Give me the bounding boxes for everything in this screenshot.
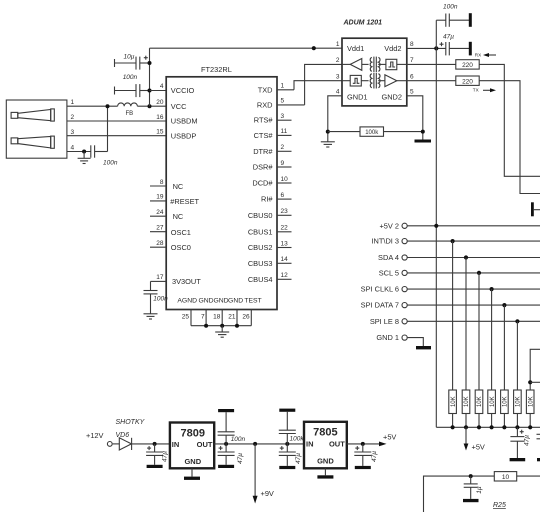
node INT\DI tap [451,239,455,243]
node gnd bus 21 [235,324,239,328]
pin 5 RXD [257,98,305,110]
wire diode to 7809 IN [132,443,170,445]
svg-text:8: 8 [160,179,164,186]
node 1u cap tap [469,474,473,478]
pin 15 USBDP label [156,129,196,141]
svg-text:13: 13 [281,240,289,247]
capacitor 100n (VCCIO) [115,74,150,97]
svg-text:47µ: 47µ [443,34,454,41]
pin 12 CBUS4 [248,272,292,284]
svg-text:VD6: VD6 [116,432,130,439]
svg-text:SCL 5: SCL 5 [379,268,399,277]
svg-text:10K: 10K [464,396,470,407]
node +9V branch [253,442,257,446]
svg-text:CBUS2: CBUS2 [248,243,273,252]
svg-text:3: 3 [281,113,285,120]
svg-text:10K: 10K [451,396,457,407]
ground below 7809 [184,468,200,480]
IC U1 FT232RL body [166,65,277,310]
svg-text:+5V 2: +5V 2 [379,221,399,230]
svg-text:TX: TX [473,88,479,93]
svg-text:15: 15 [156,129,164,136]
svg-text:47µ: 47µ [295,453,302,464]
wire column INT\DI pullup [452,241,454,390]
node VCC-row junction left [106,104,110,108]
wire USB1-VCC row [67,105,118,107]
svg-text:RI#: RI# [261,195,273,204]
svg-text:100n: 100n [103,160,118,167]
svg-text:4: 4 [160,83,164,90]
svg-text:INT\DI 3: INT\DI 3 [371,237,399,246]
connector pin GND 1 [376,333,423,346]
pin 23 CBUS0 [248,208,292,220]
node SPI DATA tap [502,303,506,307]
svg-text:6: 6 [281,192,285,199]
resistor R 10K (SCL) [475,390,483,427]
node bus column8 [528,425,532,429]
svg-text:USBDP: USBDP [171,131,197,140]
ADUM channel2 output buffer (right triangle) [378,75,407,87]
svg-text:100n: 100n [443,4,458,11]
wire FB to VCC pin [137,105,166,107]
svg-text:47µ: 47µ [162,451,169,462]
ADUM channel2 input cell (schmitt box left) [342,75,369,86]
svg-text:Vdd1: Vdd1 [347,44,364,53]
svg-text:100n: 100n [231,436,246,443]
svg-text:6: 6 [410,74,414,81]
resistor 220 (RX) [407,60,479,69]
wire top Vdd1 run [150,47,343,49]
wire RX to right edge [479,64,540,176]
ADUM pin 4 GND1 [336,89,368,102]
svg-text:19: 19 [156,194,164,201]
connector pin SDA 4 [378,253,540,262]
pin 1 TXD [258,83,294,95]
svg-text:GND 1: GND 1 [376,333,399,342]
svg-text:10K: 10K [516,396,522,407]
ADUM transformer T2 [370,73,380,89]
connector pin +5V 2 [379,221,540,230]
svg-text:21: 21 [228,313,236,320]
svg-text:26: 26 [242,313,250,320]
wire RXD to ADUM pin2 [305,64,342,105]
wire R25 row [424,476,495,512]
svg-text:3: 3 [71,129,75,136]
wire 7805 OUT [347,443,381,445]
svg-text:RXD: RXD [257,100,273,109]
ground bar 7809 input cap [147,465,163,468]
isolated ground bar GND2 [415,140,432,143]
svg-text:1: 1 [71,99,75,106]
svg-text:TXD: TXD [258,85,273,94]
ADUM channel1 input cell (schmitt box right) [378,59,407,69]
svg-text:SPI CLKL 6: SPI CLKL 6 [361,285,399,294]
pin 17 3V3OUT [151,274,202,286]
svg-text:AGND: AGND [177,298,197,305]
svg-text:+5V: +5V [472,443,485,452]
pin 6 RI# [261,192,292,204]
svg-text:VCCIO: VCCIO [171,86,195,95]
svg-text:100k: 100k [290,436,305,443]
node bus SDA [464,425,468,429]
svg-text:OUT: OUT [197,440,213,449]
capacitor 47u at 7805 output [354,444,378,466]
svg-text:FT232RL: FT232RL [201,65,232,74]
svg-text:27: 27 [156,225,164,232]
svg-text:14: 14 [281,256,289,263]
svg-text:GND: GND [184,457,201,466]
resistor R 10K (SPI DATA) [501,390,509,427]
pin 7 GND stub [201,310,206,326]
svg-text:10K: 10K [490,396,496,407]
node bus SPI CLKL [490,425,494,429]
+5V arrow below bus [464,427,485,451]
svg-text:GND2: GND2 [381,93,402,102]
wire vertical cap rail [149,48,151,106]
svg-text:NC: NC [173,212,184,221]
svg-text:220: 220 [462,78,473,85]
node SPI CLKL tap [490,287,494,291]
svg-text:47µ: 47µ [524,435,531,446]
ADUM channel1 output buffer (left triangle) [342,59,369,71]
capacitor 47u on bus [510,427,530,458]
regulator U3 7809 [170,423,214,469]
svg-text:47µ: 47µ [371,451,378,462]
resistor 220 (TX) [407,76,479,85]
pin 25 AGND stub [182,310,191,326]
svg-text:16: 16 [156,114,164,121]
wire column SPI DATA pullup [503,305,505,390]
svg-text:10K: 10K [528,396,534,407]
svg-text:#RESET: #RESET [170,197,199,206]
wire +5V2 rail vertical [435,20,437,427]
pin 18 GND stub [213,310,222,326]
connector pin SCL 5 [379,268,540,277]
svg-text:IN: IN [172,440,180,449]
svg-text:7805: 7805 [313,427,337,439]
svg-text:18: 18 [213,313,221,320]
svg-text:DSR#: DSR# [253,163,274,172]
svg-text:7809: 7809 [181,427,205,439]
connector pin SPI DATA 7 [361,301,540,310]
svg-text:VCC: VCC [171,102,187,111]
connector pin SPI LE 8 [370,317,540,326]
+5V arrow after 7805 [379,432,396,446]
wire USB2-USBDM [67,120,166,122]
svg-text:24: 24 [156,209,164,216]
svg-text:47µ: 47µ [237,453,244,464]
wire column SCL pullup [478,273,480,390]
svg-text:CBUS1: CBUS1 [248,227,273,236]
svg-text:2: 2 [71,114,75,121]
svg-text:GND: GND [317,457,334,466]
node bus SPI DATA [502,425,506,429]
capacitor C 100n on USB pin 4 [91,145,118,166]
svg-text:2: 2 [336,57,340,64]
wire USB4 stub [67,151,91,153]
svg-text:5: 5 [410,89,414,96]
ground bar at right edge (cut) [537,458,540,461]
ground bar below 1u [463,499,479,502]
capacitor 100n on 3V3OUT [144,281,169,313]
resistor 100k [328,127,423,136]
svg-text:3V3OUT: 3V3OUT [172,277,201,286]
ground bar above 7805 100n [279,409,295,412]
svg-text:10: 10 [281,176,289,183]
svg-text:7: 7 [410,57,414,64]
svg-text:OSC0: OSC0 [171,243,191,252]
wire TX to right edge [479,81,540,194]
svg-text:100n: 100n [123,74,138,81]
ground below chip [215,326,229,338]
ferrite bead FB [118,103,138,117]
wire ADUM pin8 to +5V2 rail [407,47,446,49]
svg-text:CTS#: CTS# [254,131,274,140]
capacitor 100n at 7809 output (to top bar) [218,412,246,444]
node GND2 junction [421,130,425,134]
resistor R 10K (SPI LE) [514,390,522,427]
svg-text:100k: 100k [365,130,379,136]
node GND1 junction [326,130,330,134]
wire ADUM pin4 GND1 down [328,96,342,142]
wire ground bus under chip [191,325,251,327]
pin 19 #RESET [150,194,200,206]
wire column SPI CLKL pullup [491,289,493,390]
ADUM pin 5 GND2 [381,89,414,102]
svg-text:RTS#: RTS# [254,116,274,125]
ground bar 7805 input cap [279,466,295,469]
svg-text:ADUM 1201: ADUM 1201 [343,19,383,26]
node bus SCL [477,425,481,429]
svg-text:10µ: 10µ [124,53,135,60]
capacitor at right edge (cut) [531,202,540,216]
resistor R 10K (INT\DI) [449,390,457,427]
pin 8 NC [150,179,184,191]
svg-text:TEST: TEST [244,298,261,305]
svg-text:IN: IN [306,439,314,448]
svg-text:CBUS3: CBUS3 [248,259,273,268]
node SPI LE tap [515,319,519,323]
node bus SPI LE [515,425,519,429]
svg-text:10: 10 [502,474,510,481]
wire column SDA pullup [465,258,467,391]
svg-text:NC: NC [173,182,184,191]
svg-text:OSC1: OSC1 [171,228,191,237]
svg-text:SHOTKY: SHOTKY [116,419,146,426]
capacitor 47u at 7809 output [218,444,244,465]
ground bar for connector GND [416,346,431,349]
pin 4 VCCIO label [160,83,195,95]
ADUM pin 1 Vdd1 [336,41,364,53]
pin 11 CTS# [254,128,292,140]
svg-text:11: 11 [281,128,288,135]
+9V arrow [253,444,274,504]
svg-text:Vdd2: Vdd2 [384,44,401,53]
capacitor 100n (Vdd2 top) [436,4,469,27]
pin 14 CBUS3 [248,256,292,268]
pin 16 USBDM label [156,114,197,126]
svg-text:1: 1 [336,41,340,48]
capacitor 100n at 7805 input (to top bar) [279,412,305,444]
svg-text:GND: GND [213,298,228,305]
wire column SPI LE pullup [516,321,518,390]
svg-text:22: 22 [281,225,289,232]
TX label and arrow [473,88,496,93]
svg-text:23: 23 [281,208,289,215]
svg-text:SPI DATA 7: SPI DATA 7 [361,301,399,310]
svg-text:CBUS0: CBUS0 [248,211,273,220]
node on Vdd1 run [312,46,316,50]
pin 10 DCD# [252,176,291,188]
ground bar 7809 output cap [218,465,234,468]
svg-text:+5V: +5V [383,432,396,441]
capacitor 1u [464,476,483,499]
svg-text:R25: R25 [493,502,506,509]
wire column 8 from right edge [530,349,540,390]
svg-text:4: 4 [336,89,340,96]
svg-text:20: 20 [156,99,164,106]
node SCL tap [477,271,481,275]
ADUM pin 8 Vdd2 [384,41,414,53]
pin 2 DTR# [253,144,291,156]
diode VD6 SHOTKY [116,419,146,450]
ground bar below 47u [510,458,526,461]
svg-text:7: 7 [201,313,205,320]
node column8 tap [528,380,532,384]
IC U2 ADUM 1201 body [342,19,407,106]
wire up from USB4 cap to VCC row [107,106,109,151]
node gnd bus 18 [220,324,224,328]
ground below 3V3OUT cap [144,314,158,319]
svg-text:CBUS4: CBUS4 [248,275,273,284]
connector pin INT\DI 3 [371,237,540,246]
svg-text:220: 220 [462,62,473,69]
svg-text:RX: RX [475,53,481,58]
wire TXD to ADUM pin3 [294,81,342,90]
svg-text:9: 9 [281,160,285,167]
svg-text:2: 2 [281,144,285,151]
svg-text:1: 1 [281,83,285,90]
node SDA tap [464,255,468,259]
node Vdd2 junction [434,46,438,50]
node +5V rail tap [434,224,438,228]
capacitor 10u [115,53,150,69]
ground below USB pin 4 [78,152,91,164]
svg-text:GND1: GND1 [347,93,368,102]
svg-text:USBDM: USBDM [171,117,198,126]
resistor R 10K (SDA) [462,390,470,427]
svg-text:5: 5 [281,98,285,105]
wire USB3-USBDP [67,135,166,137]
svg-text:25: 25 [182,313,190,320]
wire ADUM pin5 GND2 down [407,96,423,140]
capacitor at right edge (cut, plates) [537,434,540,439]
node gnd bus 7 [204,324,208,328]
svg-text:1µ: 1µ [476,486,483,494]
pin 21 GND stub [228,310,237,326]
resistor R 10K (SPI CLKL) [488,390,496,427]
svg-text:GND: GND [228,298,243,305]
ground bar 7805 output cap [355,466,371,469]
svg-text:10K: 10K [477,396,483,407]
node 7809 out cap [224,442,228,446]
svg-text:+9V: +9V [261,489,274,498]
capacitor 47u at 7809 input [146,444,168,465]
svg-text:+12V: +12V [86,431,104,440]
isolated ground bar for 47u [469,42,472,56]
node bus INT\DI [451,425,455,429]
svg-text:SDA 4: SDA 4 [378,253,399,262]
svg-text:OUT: OUT [329,439,345,448]
wire 7809 OUT to 7805 IN [214,443,304,445]
pin 9 DSR# [253,160,292,172]
node 10u junction [148,61,152,65]
wire +5V pullup bus [436,426,540,428]
svg-text:DCD#: DCD# [252,179,273,188]
wire column8 branch to edge [530,381,540,383]
pin 22 CBUS1 [248,225,292,237]
wire VCCIO stub [150,90,167,92]
pin 13 CBUS2 [248,240,292,252]
capacitor 47u at 7805 input [279,444,302,466]
svg-text:4: 4 [71,145,75,152]
pin 26 TEST stub [242,310,251,326]
svg-text:17: 17 [156,274,164,281]
svg-text:3: 3 [336,74,340,81]
node USB4 junction [82,150,86,154]
regulator U4 7805 [304,422,347,469]
svg-text:12: 12 [281,272,289,279]
svg-text:10K: 10K [503,396,509,407]
bottom labels AGND GND GND GND TEST [177,298,261,305]
svg-text:FB: FB [126,111,134,117]
svg-text:100n: 100n [153,296,168,303]
RX label and arrow [475,53,496,58]
terminal +12V [86,431,120,446]
pin 3 RTS# [254,113,292,125]
pin 27 OSC1 [150,225,191,237]
node 100n junction [148,89,152,93]
svg-text:8: 8 [410,41,414,48]
svg-text:DTR#: DTR# [253,147,273,156]
node VCC-row junction right [148,104,152,108]
svg-text:GND: GND [198,298,213,305]
resistor R 10K (column8) [526,390,534,427]
ADUM transformer T1 [370,57,380,73]
pin 28 OSC0 [150,240,191,252]
USB connector J1 [6,100,67,158]
connector pin SPI CLKL 6 [361,285,540,294]
node before 7809 [153,442,157,446]
svg-text:SPI LE 8: SPI LE 8 [370,317,399,326]
capacitor 47u (Vdd2) [440,34,470,56]
ground below 7805 [317,468,333,478]
svg-text:28: 28 [156,240,164,247]
node 7805 in [285,442,289,446]
pin 20 VCC label [156,99,187,111]
resistor R25 10 [493,472,540,509]
isolated ground bar for 100n [469,13,472,27]
ground GND1 [321,142,335,147]
pin 24 NC [150,209,184,221]
node 7805 out [361,442,365,446]
ground bar above 7809 100n [218,409,234,412]
